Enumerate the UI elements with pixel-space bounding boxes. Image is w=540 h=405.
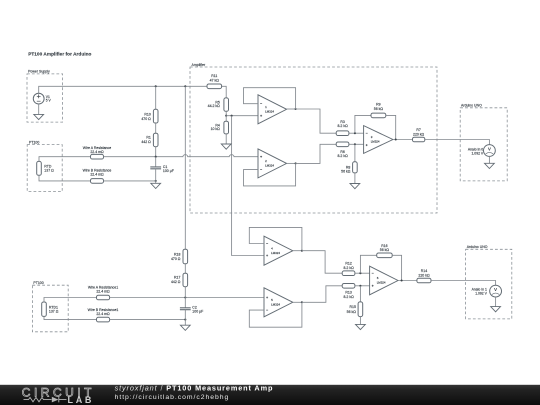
resistor R9 bbox=[371, 102, 386, 117]
ground below voltmeter 2 bbox=[491, 307, 501, 312]
wire U3 output to R7 bbox=[393, 139, 413, 141]
wire to R8 bbox=[354, 144, 356, 162]
wire U2 output bbox=[287, 162, 296, 164]
junction U4 output / feedback bbox=[301, 250, 303, 252]
svg-text:1.092 V: 1.092 V bbox=[475, 291, 487, 295]
junction U3 output / feedback bbox=[395, 138, 397, 140]
ground below V1 bbox=[34, 114, 44, 119]
wire RTD1 bottom to Wire B Resistance1 bbox=[44, 316, 97, 319]
svg-text:56 kΩ: 56 kΩ bbox=[347, 310, 357, 314]
CircuitLab logo schematic squiggle (resistor and diode) bbox=[24, 397, 67, 403]
wire-A1 net to op-amp U5 + input bbox=[110, 297, 264, 299]
svg-text:LM324: LM324 bbox=[377, 281, 386, 285]
svg-text:PT100 Amplifier for Arduino: PT100 Amplifier for Arduino bbox=[28, 52, 91, 57]
wire to R15 bbox=[359, 286, 361, 302]
wire U1 output to R3 bbox=[296, 109, 337, 133]
resistor R8 bbox=[341, 162, 357, 174]
voltmeter Analog In 0 bbox=[484, 145, 496, 157]
wire R15 to ground bbox=[359, 317, 361, 325]
junction wire-B1 / C2 / ground bbox=[184, 319, 186, 321]
svg-text:44.2 kΩ: 44.2 kΩ bbox=[208, 104, 221, 108]
svg-text:22.4 mΩ: 22.4 mΩ bbox=[96, 289, 110, 293]
svg-text:LM324: LM324 bbox=[265, 164, 274, 168]
wire-A net to op-amp U2 + input (hops over two verticals) bbox=[104, 155, 259, 157]
svg-text:47 kΩ: 47 kΩ bbox=[210, 78, 220, 82]
op-amp U2 LM324 bbox=[258, 149, 287, 178]
junction wire-A / C1 bbox=[155, 156, 157, 158]
capacitor C1 bbox=[150, 165, 174, 173]
resistor RTD1 137 ohm bbox=[42, 302, 59, 316]
resistor R13 bbox=[342, 284, 355, 299]
svg-text:R12: R12 bbox=[345, 261, 351, 265]
svg-text:PT100: PT100 bbox=[29, 140, 39, 144]
wire C2 bottom plate bbox=[184, 310, 186, 320]
wire RTD bottom to Wire B Resistance bbox=[39, 175, 91, 181]
resistor Wire A Resistance1 bbox=[88, 285, 118, 299]
wire to C2 top plate bbox=[184, 298, 186, 308]
wire-B1 net to C2 bottom bbox=[110, 319, 186, 321]
svg-text:442 Ω: 442 Ω bbox=[141, 140, 151, 144]
svg-text:Arduino UNO: Arduino UNO bbox=[467, 245, 488, 249]
svg-text:470 Ω: 470 Ω bbox=[171, 257, 181, 261]
Amplifier box bbox=[190, 63, 437, 213]
wire R7 to Arduino analog input 0 bbox=[425, 140, 490, 145]
junction U1 output / feedback bbox=[295, 108, 297, 110]
resistor R1 bbox=[141, 133, 158, 147]
svg-text:8.2 kΩ: 8.2 kΩ bbox=[337, 154, 348, 158]
svg-text:R9: R9 bbox=[376, 102, 381, 106]
wire U5 output to R13 bbox=[302, 286, 342, 303]
svg-text:22.4 mΩ: 22.4 mΩ bbox=[96, 312, 110, 316]
wire R5 to divider node bbox=[225, 111, 227, 115]
resistor R11 bbox=[207, 74, 222, 89]
svg-text:LM324: LM324 bbox=[371, 140, 380, 144]
wire R9 to U3 output bbox=[386, 115, 396, 139]
wire R13 to U6 + input bbox=[355, 285, 370, 287]
junction divider node / reference feed bbox=[231, 115, 233, 117]
resistor R14 bbox=[417, 269, 431, 283]
wire U6 output to R14 bbox=[398, 280, 417, 282]
resistor R15 bbox=[347, 302, 363, 317]
wire R18 to R17 bbox=[184, 264, 186, 273]
wire to ground stem bbox=[184, 320, 186, 326]
wire V1 to ground bbox=[38, 104, 40, 114]
svg-text:LM324: LM324 bbox=[265, 109, 274, 113]
wire U4 output to R12 bbox=[302, 251, 342, 274]
wire to ground stem bbox=[155, 181, 157, 183]
wire R8 to ground bbox=[354, 173, 356, 184]
wire R10 to R1 bbox=[155, 123, 157, 133]
resistor R18 bbox=[171, 249, 188, 264]
svg-text:Amplifier: Amplifier bbox=[192, 63, 206, 67]
resistor R3 bbox=[336, 120, 349, 136]
svg-text:R17: R17 bbox=[174, 275, 180, 279]
voltmeter Analog In 1 bbox=[490, 285, 502, 297]
resistor R17 bbox=[171, 273, 188, 287]
ground below R15 bbox=[356, 324, 366, 329]
svg-text:styroxfjant / PT100 Measuremen: styroxfjant / PT100 Measurement Amp bbox=[115, 383, 274, 392]
op-amp U3 LM324 bbox=[364, 126, 393, 154]
wire R3 to U3 - input bbox=[349, 132, 364, 134]
resistor R5 bbox=[208, 98, 229, 111]
svg-text:8.2 kΩ: 8.2 kΩ bbox=[343, 266, 354, 270]
svg-text:8.2 kΩ: 8.2 kΩ bbox=[343, 295, 354, 299]
wire U4 output bbox=[293, 250, 302, 252]
reference wire down to op-amp U4 + input bbox=[232, 116, 264, 256]
svg-text:100 µF: 100 µF bbox=[192, 310, 203, 314]
junction U2 output / feedback bbox=[295, 162, 297, 164]
resistor Wire A Resistance bbox=[83, 146, 111, 159]
junction rail / feed to lower divider bbox=[184, 85, 186, 87]
wire to C1 top plate bbox=[155, 157, 157, 167]
resistor R16 bbox=[377, 244, 393, 258]
resistor R12 bbox=[342, 261, 355, 275]
resistor Wire B Resistance1 bbox=[88, 308, 119, 322]
svg-text:137 Ω: 137 Ω bbox=[49, 310, 59, 314]
svg-text:470 Ω: 470 Ω bbox=[141, 117, 151, 121]
wire divider node to R4 bbox=[225, 116, 227, 122]
ground below C2 bbox=[180, 325, 190, 330]
ground below R4 bbox=[221, 144, 231, 149]
wire R11 to R5 bbox=[222, 86, 227, 98]
svg-text:22.4 mΩ: 22.4 mΩ bbox=[90, 173, 104, 177]
wire voltmeter 2 to ground bbox=[495, 297, 497, 307]
resistor Wire B Resistance bbox=[83, 169, 112, 184]
wire R14 to Arduino analog input 1 bbox=[431, 281, 496, 286]
svg-text:5 V: 5 V bbox=[46, 99, 52, 103]
resistor R10 bbox=[141, 109, 158, 123]
junction R13 / R15 bbox=[359, 285, 361, 287]
svg-text:22.4 mΩ: 22.4 mΩ bbox=[90, 150, 104, 154]
Arduino UNO box (second) bbox=[466, 245, 512, 319]
wire RTD1 top to Wire A Resistance1 bbox=[44, 298, 97, 303]
svg-text:PT100: PT100 bbox=[33, 281, 43, 285]
feedback wire to R16 bbox=[360, 255, 376, 273]
svg-text:10 kΩ: 10 kΩ bbox=[211, 127, 221, 131]
wire R6 to U3 + input bbox=[349, 143, 364, 145]
op-amp U1 LM324 bbox=[258, 95, 287, 124]
wire R1 to wire-A node bbox=[155, 147, 157, 157]
svg-text:R1: R1 bbox=[146, 135, 151, 139]
wire rail to R10 bbox=[155, 86, 157, 109]
svg-text:137 Ω: 137 Ω bbox=[44, 168, 54, 172]
wire voltmeter 1 to ground bbox=[488, 156, 490, 163]
svg-text:http://circuitlab.com/c2hebhg: http://circuitlab.com/c2hebhg bbox=[115, 394, 230, 401]
ground below R8 bbox=[350, 184, 360, 189]
svg-text:LM324: LM324 bbox=[271, 302, 280, 306]
wire U2 output to R6 bbox=[296, 144, 337, 163]
svg-text:8.2 kΩ: 8.2 kΩ bbox=[337, 124, 348, 128]
svg-text:Power Supply: Power Supply bbox=[28, 70, 50, 74]
capacitor C2 bbox=[180, 306, 203, 314]
feedback wire U5 output to - input bbox=[249, 302, 302, 327]
wire-B net to C1 bottom bbox=[104, 180, 156, 182]
svg-text:220 kΩ: 220 kΩ bbox=[418, 273, 430, 277]
resistor R6 bbox=[336, 142, 349, 158]
svg-text:R15: R15 bbox=[349, 305, 355, 309]
svg-text:1.092 V: 1.092 V bbox=[471, 152, 483, 156]
resistor R7 bbox=[413, 128, 425, 142]
svg-text:LAB: LAB bbox=[68, 395, 95, 405]
junction wire-A1 / divider / C2 bbox=[184, 296, 186, 298]
ground below C1 bbox=[151, 183, 161, 188]
wire U5 output bbox=[293, 301, 302, 303]
wire from V1 to 5V rail and R11 bbox=[39, 86, 207, 93]
junction R3 / R9 feedback bbox=[354, 132, 356, 134]
feedback wire to R9 bbox=[355, 115, 371, 133]
feedback wire U4 output to - input bbox=[249, 227, 302, 250]
wire R17 to wire-A1 node bbox=[184, 287, 186, 298]
feedback wire U2 output to - input bbox=[244, 163, 296, 186]
wire R12 to U6 - input bbox=[355, 272, 370, 274]
voltage source V1 bbox=[33, 93, 44, 104]
resistor RTD 137 ohm bbox=[37, 161, 54, 175]
svg-text:56 kΩ: 56 kΩ bbox=[341, 169, 351, 173]
PT100 box bbox=[27, 140, 62, 191]
op-amp U5 LM324 bbox=[264, 288, 293, 317]
svg-text:56 kΩ: 56 kΩ bbox=[374, 107, 384, 111]
svg-text:442 Ω: 442 Ω bbox=[171, 280, 181, 284]
long vertical wire rail to lower divider R18 bbox=[184, 86, 186, 249]
junction rail / R10 bbox=[155, 85, 157, 87]
wire R4 to ground bbox=[225, 134, 227, 144]
resistor R4 bbox=[211, 121, 229, 134]
junction U6 output / feedback bbox=[401, 279, 403, 281]
wire divider node to op-amp U1 + input bbox=[226, 115, 258, 117]
junction wire-B / C1 / ground bbox=[155, 180, 157, 182]
svg-text:Arduino UNO: Arduino UNO bbox=[461, 104, 482, 108]
junction R12 / R16 feedback bbox=[359, 272, 361, 274]
wire R16 to U6 output bbox=[392, 255, 401, 280]
op-amp U6 LM324 bbox=[370, 266, 398, 295]
Power Supply box bbox=[27, 70, 63, 123]
junction R6 / R8 bbox=[354, 143, 356, 145]
wire RTD top to Wire A Resistance bbox=[39, 157, 91, 162]
svg-text:220 kΩ: 220 kΩ bbox=[413, 133, 425, 137]
op-amp U4 LM324 bbox=[264, 236, 293, 265]
svg-text:LM324: LM324 bbox=[271, 251, 280, 255]
wire C1 bottom plate to wire-B node bbox=[155, 169, 157, 181]
PT100 box (second sensor) bbox=[32, 281, 68, 332]
wire U1 output bbox=[287, 108, 296, 110]
svg-text:56 kΩ: 56 kΩ bbox=[380, 248, 390, 252]
feedback wire U1 output to - input bbox=[244, 88, 296, 109]
ground below voltmeter 1 bbox=[485, 163, 495, 168]
junction divider node bbox=[225, 115, 227, 117]
junction U5 output / feedback bbox=[301, 301, 303, 303]
Arduino UNO box bbox=[460, 104, 507, 181]
svg-text:100 µF: 100 µF bbox=[163, 169, 174, 173]
